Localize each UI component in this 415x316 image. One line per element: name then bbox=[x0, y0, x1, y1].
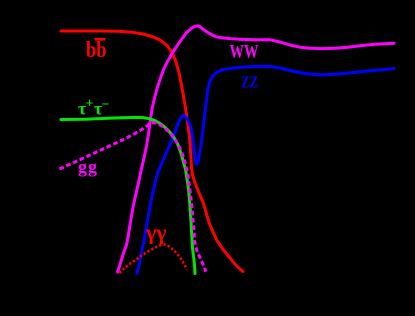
svg-text:bb: bb bbox=[86, 37, 107, 62]
svg-text:ZZ: ZZ bbox=[241, 73, 258, 92]
svg-text:γγ: γγ bbox=[145, 220, 167, 245]
curve gg (magenta dashed) bbox=[60, 123, 206, 272]
curve ZZ (blue solid) bbox=[137, 66, 394, 273]
label tau+tau- (green) bbox=[78, 97, 110, 119]
svg-text:gg: gg bbox=[78, 157, 98, 177]
curve gamma-gamma (red dotted) bbox=[120, 245, 187, 273]
curve bb (red solid branching ratio) bbox=[61, 31, 243, 272]
curve tau+tau- (green solid) bbox=[61, 117, 195, 273]
svg-text:WW: WW bbox=[230, 42, 259, 63]
svg-text:−: − bbox=[102, 98, 110, 113]
curve WW (magenta solid) bbox=[118, 26, 394, 272]
svg-text:+: + bbox=[86, 97, 94, 112]
label bb-bar (red) bbox=[86, 37, 107, 62]
